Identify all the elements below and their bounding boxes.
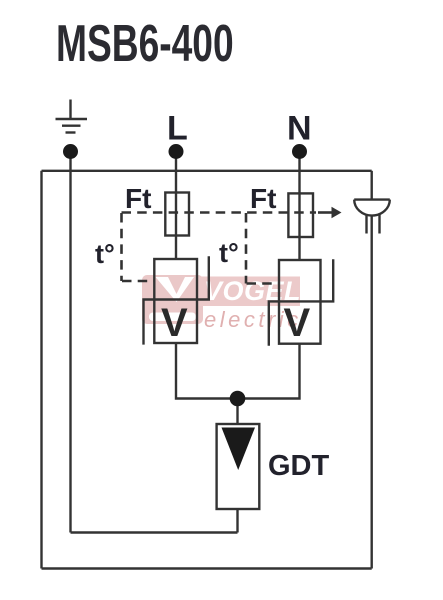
dashed vertical right	[245, 213, 248, 284]
ground symbol	[56, 100, 88, 133]
wire junction to GDT	[236, 399, 238, 425]
svg-text:Ft: Ft	[250, 183, 276, 214]
svg-text:L: L	[167, 110, 188, 148]
wire PE bottom horizontal	[71, 531, 238, 533]
wire L vertical	[175, 158, 177, 259]
watermark logo square	[142, 275, 203, 324]
varistor V2 strike line	[269, 259, 333, 345]
dashed vertical left	[120, 213, 123, 281]
GDT arrow triangle	[222, 428, 256, 471]
terminal dot N	[292, 144, 307, 159]
wire V1 bottom	[176, 343, 238, 399]
thermal linkage dashed lines	[122, 213, 317, 284]
varistor V1 body	[154, 259, 197, 343]
svg-text:GDT: GDT	[268, 450, 330, 482]
svg-text:V: V	[284, 301, 311, 345]
varistor V1 strike line	[144, 256, 209, 344]
svg-text:Ft: Ft	[125, 183, 151, 214]
GDT body	[217, 424, 260, 509]
svg-text:V: V	[161, 301, 188, 345]
svg-text:MSB6-400: MSB6-400	[56, 14, 234, 73]
junction node	[230, 391, 246, 407]
enclosure box	[42, 171, 372, 569]
svg-text:t°: t°	[219, 238, 239, 268]
terminal dot L	[169, 144, 184, 159]
dashed horizontal to V2	[247, 282, 280, 285]
arrow to indicator	[318, 207, 342, 219]
svg-text:N: N	[287, 110, 312, 148]
varistor V2 body	[279, 260, 321, 344]
plug-socket symbol	[354, 200, 390, 234]
dashed horizontal main	[122, 211, 317, 214]
dashed horizontal to V1	[122, 280, 154, 283]
svg-text:t°: t°	[95, 239, 115, 269]
fuse Ft2	[288, 193, 313, 237]
wire GDT bottom	[236, 509, 238, 533]
fuse Ft1	[165, 193, 189, 236]
wire PE vertical	[69, 158, 71, 533]
terminal dot PE	[63, 144, 78, 159]
wire V2 bottom	[238, 344, 300, 399]
wire N vertical	[298, 158, 300, 260]
watermark band	[195, 277, 300, 307]
